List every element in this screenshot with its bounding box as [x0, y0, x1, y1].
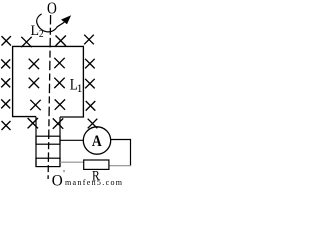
svg-text:L: L	[31, 22, 40, 39]
svg-text:2: 2	[39, 29, 44, 40]
svg-text:1: 1	[77, 82, 83, 95]
svg-text:manfen5.com: manfen5.com	[65, 178, 123, 187]
svg-text:O: O	[52, 172, 63, 187]
svg-text:O: O	[47, 0, 57, 18]
svg-text:A: A	[92, 133, 102, 150]
